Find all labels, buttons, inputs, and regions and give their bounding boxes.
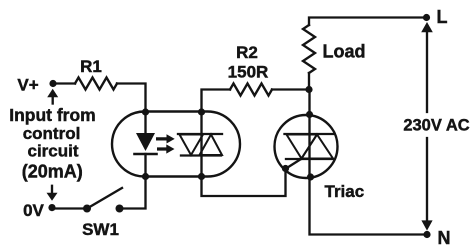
junction dot opto triac top [198,108,205,115]
junction dot SW1 right contact [116,205,124,213]
svg-text:Triac: Triac [325,182,365,201]
svg-text:SW1: SW1 [82,220,119,239]
junction dot R2/Load/triac node [305,86,312,93]
svg-text:R1: R1 [80,57,102,76]
wire 0V node to SW1 [52,207,87,209]
resistor R2 [230,84,272,96]
N arrowhead (down) [421,220,432,230]
svg-text:R2: R2 [236,43,258,62]
junction dot opto LED bottom [142,173,149,180]
junction dot opto LED top [142,108,149,115]
triac Q1 circle [275,115,338,178]
svg-text:V+: V+ [17,76,38,95]
opto triac bottom bar [181,154,221,156]
junction dot SW1 left contact [83,205,91,213]
resistor Load (vertical) [303,25,315,73]
junction dot opto triac bottom [198,173,205,180]
opto LED anode wire [144,112,146,133]
junction dot triac MT2 [306,111,313,118]
svg-text:L: L [437,7,448,27]
wire opto triac top to R2 (corner) [202,90,231,113]
svg-text:control: control [23,124,81,143]
L arrowhead (up) [421,22,433,32]
opto triac right triangle [200,135,223,156]
0V input arrowhead (down) [47,193,58,201]
junction dot N terminal [423,231,430,238]
V+ input arrowhead (up) [47,89,58,98]
svg-text:Input from: Input from [9,105,96,125]
svg-text:150R: 150R [228,63,269,82]
triac left triangle [287,135,318,159]
junction dot triac gate [282,165,289,172]
svg-text:circuit: circuit [27,142,78,161]
wire R2 to load/triac junction [272,88,309,90]
230V AC measure line lower [426,138,428,221]
wire R1 to opto LED (corner) [117,84,146,113]
junction dot 0V node [48,204,55,211]
opto-coupler body outline [112,112,240,177]
0V input arrow tail [51,186,53,194]
opto triac vertical conductor [200,112,202,177]
wire junction down through triac to bottom rail and N [310,90,428,235]
junction dot triac MT1 [307,173,314,180]
opto LED triangle [136,133,155,151]
triac top bar [285,133,335,135]
opto triac top bar [178,133,222,135]
wire load top lead and top rail to L [309,18,427,90]
opto light arrow upper [156,134,175,143]
triac bottom bar [286,158,333,160]
svg-text:N: N [438,228,451,248]
opto light arrow lower [157,144,175,153]
svg-text:230V AC: 230V AC [403,117,469,135]
V+ input arrow tail [52,97,54,104]
resistor R1 [75,78,117,90]
triac gate lead [286,159,301,169]
svg-text:0V: 0V [23,201,44,220]
svg-text:(20mA): (20mA) [22,162,83,182]
junction dot L terminal [423,14,430,21]
opto LED cathode wire [144,154,146,177]
wire opto LED cathode to SW1 [120,177,146,209]
junction dot V+ node [49,80,56,87]
wire opto triac bottom to triac gate [202,169,286,197]
opto LED cathode bar [135,153,157,156]
svg-text:Load: Load [323,42,366,62]
switch SW1 lever [87,188,122,209]
wire V+ node to R1 [53,82,75,84]
triac right triangle [302,135,334,159]
230V AC measure line upper [426,30,428,112]
opto triac left triangle [180,135,204,156]
